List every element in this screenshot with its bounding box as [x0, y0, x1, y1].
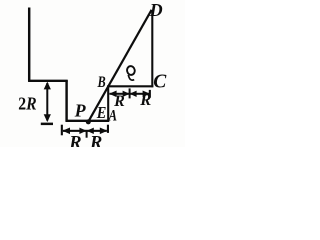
2R arrow	[41, 82, 53, 126]
wall DC	[151, 10, 153, 87]
BC measure	[109, 88, 151, 98]
ledge BC	[107, 85, 153, 87]
svg-text:A: A	[108, 108, 117, 125]
floor span measure	[61, 125, 109, 138]
svg-text:R: R	[68, 134, 81, 147]
svg-text:C: C	[153, 72, 167, 93]
left wall	[28, 8, 30, 82]
pit right wall AB	[107, 86, 109, 122]
svg-text:B: B	[97, 74, 106, 91]
pit floor	[66, 120, 110, 122]
point E dot	[86, 119, 91, 124]
label Q	[126, 65, 135, 80]
svg-text:R: R	[139, 90, 151, 109]
svg-text:R: R	[89, 134, 102, 147]
step wall	[65, 80, 67, 121]
svg-text:P: P	[74, 100, 87, 120]
svg-text:D: D	[149, 0, 163, 20]
step ledge	[28, 80, 68, 82]
svg-text:E: E	[96, 103, 106, 122]
incline DE	[88, 10, 151, 122]
svg-text:2R: 2R	[18, 94, 36, 114]
